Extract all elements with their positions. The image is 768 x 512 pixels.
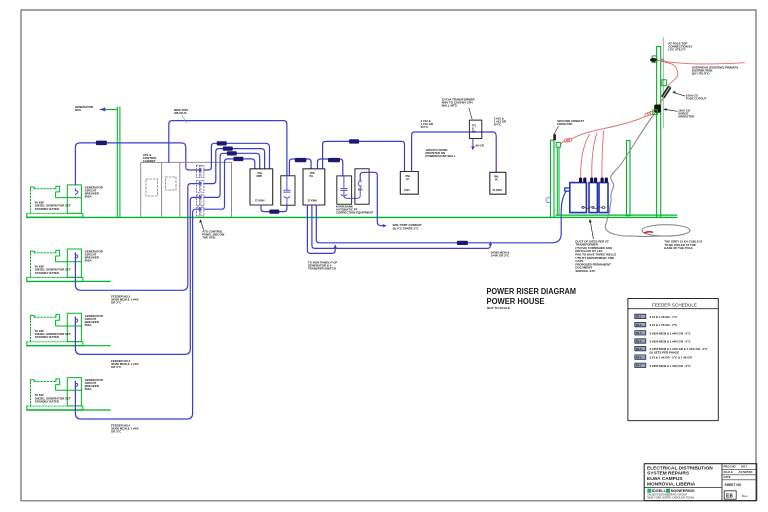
svg-text:FD-6: FD-6	[636, 356, 642, 359]
ATS-4 dashed box halves	[196, 207, 199, 216]
KVAR switch box	[355, 169, 369, 205]
panel PL	[490, 172, 506, 194]
label leader	[182, 115, 187, 123]
feeder tag MDP-cap	[269, 210, 279, 214]
svg-text:THE ATS): THE ATS)	[202, 235, 215, 239]
wire G4 feeder to ATS-4	[75, 209, 197, 419]
generator G3 base stub	[83, 345, 110, 347]
transformer label leader	[469, 108, 472, 119]
ATS control cabinet outline	[141, 162, 232, 217]
yard ground conduit riser	[556, 147, 558, 215]
transformer A body	[570, 183, 587, 213]
capacitor element	[284, 176, 290, 205]
ATS-2 dashed box halves	[196, 181, 199, 193]
feeder tag PB-KVAR	[328, 158, 340, 162]
transformer C body	[599, 183, 608, 213]
ATS-3 dashed box halves	[196, 195, 199, 206]
red tape mark on coil	[645, 232, 653, 233]
red jumper cutout to arrester	[660, 98, 664, 105]
panel LP	[400, 172, 418, 195]
svg-text:WALL MTD: WALL MTD	[442, 104, 457, 108]
capacitor cell box	[281, 176, 295, 205]
generator G3	[27, 313, 104, 345]
svg-text:NEW YORK NORTH CAROLINA TE: NEW YORK NORTH CAROLINA TEXAS	[647, 496, 694, 500]
engineering firm	[647, 489, 651, 493]
wire panel B to KVAR box	[318, 159, 343, 176]
svg-text:TRANSFER SWITCH: TRANSFER SWITCH	[308, 266, 336, 270]
primary red line from post to pole arrester	[561, 141, 564, 144]
wire KVAR switch to ground stub	[360, 172, 384, 225]
svg-text:POWER RISER DIAGRAM: POWER RISER DIAGRAM	[487, 286, 577, 296]
svg-text:SCALE: SCALE	[724, 470, 733, 474]
KVAR switch breaker C	[358, 181, 361, 186]
main ground bus (green)	[27, 216, 677, 218]
existing pole grey line	[662, 38, 664, 128]
ATS-1 dashed box halves	[196, 165, 199, 177]
svg-text:PL: PL	[495, 179, 499, 182]
svg-text:MDP: MDP	[257, 175, 263, 178]
svg-text:POWER HOUSE: POWER HOUSE	[487, 296, 545, 306]
svg-text:27 KWH: 27 KWH	[308, 200, 318, 203]
ATS-2 node diamond	[198, 181, 202, 185]
LV stub on transformer A	[565, 188, 570, 191]
panel MDP	[250, 169, 273, 205]
wire panel B short run B with arrow	[312, 205, 491, 248]
svg-text:FUSE CUTOUT: FUSE CUTOUT	[686, 97, 707, 101]
svg-text:IDGELL: IDGELL	[652, 489, 667, 493]
utility pole	[657, 47, 661, 218]
svg-text:Rev-: Rev-	[742, 494, 748, 498]
feeder row 4	[635, 339, 646, 343]
svg-text:BASE OF THE POLE: BASE OF THE POLE	[664, 246, 692, 250]
feeder schedule box	[628, 299, 718, 421]
svg-text:1#4/0 GR 3"C: 1#4/0 GR 3"C	[491, 254, 510, 258]
svg-text:ARRESTER: ARRESTER	[678, 115, 695, 119]
title block outer	[644, 464, 757, 501]
crossarm insulator	[650, 58, 657, 62]
feeder row 2	[635, 322, 646, 326]
svg-text:PROJ NO: PROJ NO	[724, 465, 736, 469]
transformer C bushings	[601, 178, 604, 183]
svg-text:FD-1: FD-1	[636, 316, 642, 319]
ATS-4 node diamond	[198, 207, 202, 211]
svg-text:CABINET: CABINET	[143, 159, 156, 163]
svg-text:3 #1 & 1 #6 GR - 2"C: 3 #1 & 1 #6 GR - 2"C	[650, 323, 679, 327]
svg-text:FD-7: FD-7	[636, 365, 642, 368]
cable coil	[642, 225, 690, 236]
generator bus riser (double green line)	[116, 107, 118, 217]
feeder row 3	[635, 331, 646, 335]
transformer B body	[589, 183, 597, 213]
svg-text:(2) SETS PER PHASE: (2) SETS PER PHASE	[650, 350, 679, 354]
svg-text:PH: PH	[310, 175, 314, 178]
svg-text:3 #350 MCM & 1 #4/0 GR - 3"C: 3 #350 MCM & 1 #4/0 GR - 3"C	[650, 331, 692, 335]
svg-text:E8: E8	[726, 494, 733, 500]
feeder tag GEN1	[96, 141, 107, 146]
feeder tag ATS2	[223, 147, 233, 151]
svg-text:SERVICE. ETC: SERVICE. ETC	[575, 269, 596, 273]
feeder tag long run	[457, 241, 468, 245]
svg-text:(2) 4"C SPARE 2"C: (2) 4"C SPARE 2"C	[393, 226, 420, 230]
feeder row 1	[635, 314, 646, 318]
generator G2	[27, 249, 104, 281]
wire panel B short run A with arrow	[307, 205, 335, 253]
feeder tag ATS1	[217, 141, 227, 145]
yard ground conduit head	[556, 143, 560, 148]
svg-text:NOT TO SCALE: NOT TO SCALE	[487, 306, 510, 310]
svg-text:MONROVIA, LIBERIA: MONROVIA, LIBERIA	[647, 482, 696, 488]
ATS note arrow	[201, 222, 204, 230]
svg-text:GR 3"C: GR 3"C	[111, 300, 122, 304]
svg-text:PH: PH	[472, 131, 476, 134]
svg-text:3 #1 & 1 #6 GR - 2"C & 1 #8 GR: 3 #1 & 1 #6 GR - 2"C & 1 #8 GR	[650, 356, 693, 360]
wire panel B to panel LP	[323, 141, 405, 171]
post top insulator	[553, 134, 556, 140]
svg-text:(BY UTILITY): (BY UTILITY)	[692, 71, 710, 75]
crossarm hardware	[660, 59, 664, 62]
svg-text:3 #350 MCM & 1 #4/0 GR - 3"C: 3 #350 MCM & 1 #4/0 GR - 3"C	[650, 340, 692, 344]
svg-text:FD-2: FD-2	[636, 324, 642, 327]
svg-text:SHEET NO: SHEET NO	[725, 483, 742, 487]
generator G1	[27, 185, 104, 217]
feeder tag ATS3	[227, 151, 237, 155]
yard middle post	[627, 141, 631, 216]
red drop to transformer C bushing	[602, 131, 604, 177]
wire ATS-1 output to MDP	[204, 143, 270, 170]
feeder tag cap-PB	[295, 158, 307, 162]
wire ATS-3 output to MDP	[204, 153, 260, 197]
svg-text:GR 3"C: GR 3"C	[111, 429, 122, 433]
pole ground box	[653, 110, 658, 115]
svg-text:POWERHOUSE WALL: POWERHOUSE WALL	[425, 154, 455, 158]
wire KVAR cap to switch	[344, 186, 360, 198]
svg-text:3 #4 & 1 #8 GR - 1"C: 3 #4 & 1 #8 GR - 1"C	[650, 315, 679, 319]
svg-text:DATE: DATE	[724, 475, 731, 479]
ATS-1 node diamond	[198, 168, 202, 172]
transformer T box	[469, 120, 481, 138]
svg-text:3PH BUS: 3PH BUS	[174, 111, 187, 115]
generator G4	[27, 378, 104, 410]
svg-text:100A: 100A	[404, 189, 410, 192]
wire MDP bottom to capacitor cell	[261, 205, 287, 212]
pole crossarm	[652, 56, 657, 63]
svg-text:27 KWH: 27 KWH	[255, 200, 265, 203]
yard left post	[551, 140, 555, 217]
wire ATS-2 output to MDP	[204, 149, 265, 184]
wire ATS-4 output to MDP	[204, 159, 255, 209]
panel B	[303, 169, 325, 205]
svg-text:3 #350 MCM & 1 #4/0 GR - 3"C: 3 #350 MCM & 1 #4/0 GR - 3"C	[650, 364, 692, 368]
transformer B bushings	[590, 178, 593, 183]
wire G2 feeder to ATS-2	[75, 184, 197, 291]
red jumper crossarm to cutout	[661, 61, 678, 85]
transformer A bushings	[579, 178, 582, 183]
overhead primary red wire	[658, 60, 745, 64]
grounding clamp on post	[546, 198, 550, 203]
transformer pad line	[556, 214, 677, 216]
svg-text:GR 3"C: GR 3"C	[111, 365, 122, 369]
label leader to post	[554, 126, 559, 135]
svg-text:2017: 2017	[741, 465, 747, 469]
generator G2 base stub	[83, 280, 110, 282]
svg-text:#6 GR: #6 GR	[476, 143, 485, 147]
feeder row 6	[635, 355, 646, 359]
svg-text:FD-5: FD-5	[636, 348, 642, 351]
wire panel LP to transformer T	[412, 132, 497, 172]
ground conductor from transformer	[472, 139, 474, 148]
feeder row 7	[635, 363, 646, 367]
arrester label arrow	[666, 110, 677, 112]
svg-text:50 KWH: 50 KWH	[493, 189, 503, 192]
wire cabinet riser loop to capacitor cell	[169, 121, 287, 176]
svg-text:-: -	[742, 476, 743, 479]
svg-text:60A: 60A	[358, 189, 363, 192]
transformer LV wavy marks	[582, 207, 606, 209]
surge arrester	[654, 105, 661, 113]
svg-text:FROM PAD: FROM PAD	[557, 122, 572, 126]
wire panel B to transformer run (long bottom feeder)	[316, 191, 566, 243]
svg-text:FD-4: FD-4	[636, 340, 642, 343]
pole mounted box	[662, 80, 667, 86]
svg-text:AS NOTED: AS NOTED	[739, 470, 753, 474]
note leader arrow to pad	[590, 222, 593, 239]
KVAR capacitor box	[337, 176, 352, 204]
grey service cable from pole to coil	[605, 113, 655, 236]
KVAR capacitor element	[341, 176, 347, 196]
feeder row 5	[635, 346, 646, 350]
wire G3 feeder to ATS-3	[75, 197, 197, 354]
svg-text:3/4"C: 3/4"C	[421, 125, 429, 129]
svg-text:LEC UTILITY: LEC UTILITY	[668, 48, 686, 52]
svg-text:FD-3: FD-3	[636, 332, 642, 335]
wire G1 feeder to ATS-1	[75, 143, 197, 185]
feeder tag ATS4	[233, 157, 243, 161]
svg-text:3/4"C: 3/4"C	[494, 123, 502, 127]
svg-text:ELWA CAMPUS: ELWA CAMPUS	[647, 476, 683, 482]
svg-text:LP: LP	[406, 178, 410, 181]
cutout label arrow	[675, 93, 685, 96]
svg-text:SYSTEM REPAIRS: SYSTEM REPAIRS	[647, 471, 690, 477]
red drop to transformer B bushing	[592, 133, 597, 178]
svg-text:BUS: BUS	[75, 108, 81, 112]
title block info rows	[722, 468, 757, 470]
ATS-3 node diamond	[198, 195, 202, 199]
fuse cutout	[661, 85, 672, 98]
svg-text:ELECTRICAL DISTRIBUTION: ELECTRICAL DISTRIBUTION	[647, 465, 713, 471]
svg-text:CORRECTION EQUIPMENT: CORRECTION EQUIPMENT	[336, 211, 374, 215]
feeder tag PB-LP	[349, 139, 359, 143]
generator G4 base stub	[83, 409, 110, 411]
svg-text:FEEDER SCHEDULE: FEEDER SCHEDULE	[652, 303, 697, 308]
red drop to transformer A bushing	[581, 134, 590, 177]
cabinet dashed device bay 1	[146, 179, 158, 196]
cabinet dashed device bay 2	[166, 177, 177, 190]
sheet stamp	[724, 491, 736, 499]
svg-text:NGINEERING: NGINEERING	[671, 489, 695, 493]
wire capacitor cell to panel B	[289, 159, 311, 176]
arrow to generator bus	[100, 108, 117, 110]
